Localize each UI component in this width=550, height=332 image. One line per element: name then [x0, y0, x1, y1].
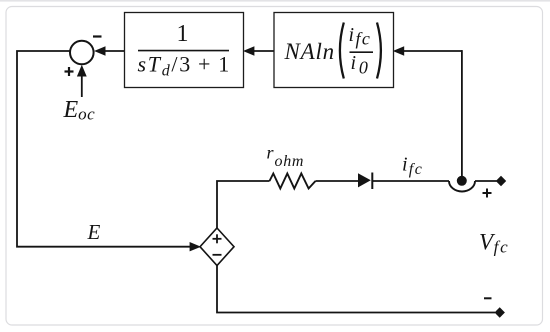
svg-text:1: 1	[177, 21, 189, 47]
wire: source top to resistor	[217, 181, 270, 229]
wire: diode to node	[372, 180, 449, 182]
node junction dot with hop arc	[457, 176, 467, 186]
wire: vertical feedback tap	[461, 50, 463, 177]
summing junction S1	[70, 41, 94, 65]
svg-text:E: E	[87, 220, 101, 244]
wire: feedback from node down-right corner into block U2	[403, 50, 462, 52]
minus sign at negative terminal	[484, 297, 492, 299]
arrowhead into controlled source	[190, 242, 201, 251]
plus sign at summing junction	[65, 67, 74, 76]
wire: node to positive terminal	[475, 180, 497, 182]
wire: block1 output to summing junction	[104, 50, 125, 52]
block U2: NAln(ifc/i0)	[274, 13, 394, 88]
wire: block U2 output to block U1	[253, 50, 274, 52]
svg-text:ifc: ifc	[349, 24, 372, 48]
minus sign at summing junction	[93, 35, 102, 37]
resistor R1 (r_ohm)	[270, 174, 316, 189]
wire: source bottom to negative terminal	[217, 265, 495, 313]
wire: Eoc input arrow into summing junction	[81, 75, 83, 97]
negative port diamond	[495, 307, 505, 317]
diode D1	[358, 173, 371, 187]
svg-text:NAln: NAln	[284, 39, 335, 64]
positive port diamond	[496, 176, 506, 186]
svg-text:sTd/3 + 1: sTd/3 + 1	[138, 52, 231, 80]
block U1: 1/(sTd/3+1)	[125, 13, 244, 88]
controlled voltage source B1	[200, 228, 234, 266]
wire: resistor to diode	[316, 180, 359, 182]
plus sign at positive terminal	[483, 189, 492, 198]
wire: summing output left	[17, 51, 196, 247]
